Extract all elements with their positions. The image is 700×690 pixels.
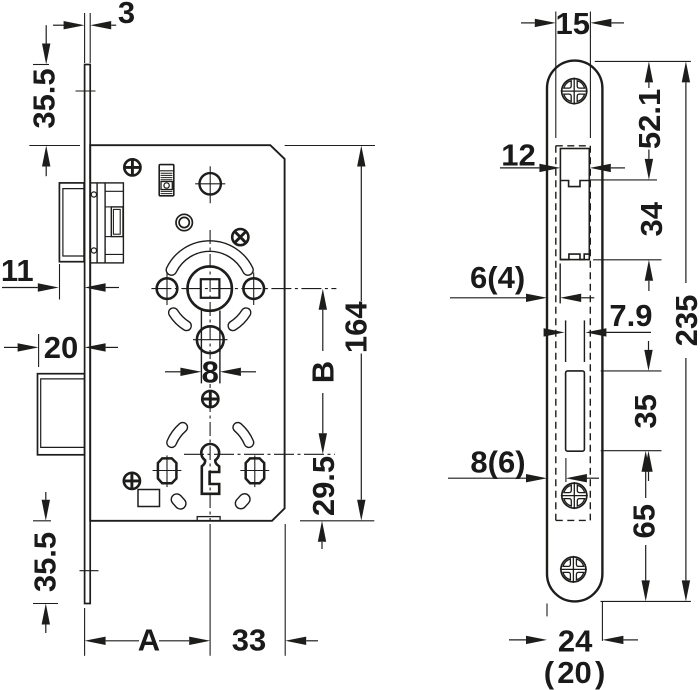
screw hole bottom (right view)	[560, 556, 587, 583]
deadbolt opening	[566, 371, 585, 451]
svg-text:33: 33	[232, 623, 266, 658]
inner vertical edge lines	[555, 12, 557, 139]
svg-text:235: 235	[669, 295, 700, 347]
dimension 7.9	[544, 298, 653, 337]
dimension 8(6)	[448, 445, 599, 483]
keyhole cluster : kidney top-left	[172, 427, 183, 442]
dimension 35	[601, 341, 663, 481]
svg-text:35: 35	[628, 394, 663, 428]
dimension 6(4)	[450, 260, 594, 302]
svg-text:34: 34	[634, 201, 669, 236]
svg-text:6(4): 6(4)	[470, 260, 525, 295]
dimension 3 (top)	[53, 0, 135, 63]
main follower hub	[188, 266, 232, 310]
screw hole middle (right view)	[561, 482, 588, 509]
spindle channel stubs inside lower hub	[201, 328, 220, 352]
keyhole cluster : kidney top-right	[238, 427, 249, 442]
svg-text:20: 20	[44, 330, 78, 365]
hub kidney slot lower-left	[173, 313, 186, 326]
svg-text:11: 11	[1, 253, 34, 288]
svg-text:65: 65	[626, 504, 661, 538]
svg-text:24: 24	[558, 624, 593, 659]
svg-text:29.5: 29.5	[306, 456, 341, 516]
right side hole	[243, 273, 264, 306]
screw S1 top-left	[124, 159, 141, 176]
svg-text:35.5: 35.5	[27, 68, 62, 128]
keyhole	[201, 444, 219, 494]
dimension 52.1	[589, 61, 691, 179]
dimension 35.5 (bottom)	[28, 492, 63, 633]
svg-text:15: 15	[556, 6, 590, 41]
faceplate (left view)	[85, 65, 91, 604]
svg-text:35.5: 35.5	[28, 532, 63, 592]
svg-text:164: 164	[339, 301, 374, 353]
dimension 15	[521, 6, 624, 41]
svg-text:7.9: 7.9	[609, 298, 652, 333]
upper hub hole	[195, 166, 225, 203]
dimension B	[305, 289, 340, 455]
hub horizontal centerline	[151, 288, 336, 290]
keyhole cluster : kidney bottom-right	[233, 491, 252, 511]
bolt channel lines	[565, 320, 567, 362]
crescent slot above hub	[171, 246, 247, 270]
dashed lock case behind plate	[556, 146, 591, 521]
keyhole cluster : kidney bottom-left	[169, 492, 188, 512]
dimension 65	[626, 451, 661, 602]
dimension 34	[593, 201, 669, 291]
latch bolt head	[59, 183, 84, 262]
svg-text:A: A	[138, 623, 160, 658]
lock body outline	[90, 145, 284, 521]
hub kidney slot lower-right	[233, 313, 246, 326]
hex fixing hole right	[240, 455, 269, 487]
dimension 164	[29, 146, 375, 521]
dimension 11	[1, 253, 119, 300]
ring hole	[176, 214, 192, 230]
deadbolt	[38, 374, 85, 455]
latch opening	[560, 149, 589, 260]
main vertical centerline	[209, 230, 211, 521]
svg-text:52.1: 52.1	[632, 89, 667, 149]
bottom tick line (65 / 235)	[601, 600, 691, 602]
dimension 20	[4, 330, 118, 367]
svg-text:B: B	[305, 361, 340, 383]
adjustable slider element	[159, 165, 174, 196]
svg-text:8(6): 8(6)	[470, 445, 525, 480]
hex fixing hole left	[153, 455, 182, 487]
dimension 235	[669, 61, 700, 601]
dimension 29.5	[306, 456, 341, 549]
svg-text:12: 12	[501, 138, 535, 173]
faceplate stadium outline	[547, 61, 602, 602]
dimension A and 33	[85, 524, 318, 658]
lower hub hole	[193, 326, 228, 353]
screw S3 (above keyhole)	[202, 390, 219, 407]
screw S4 (bottom-left)	[123, 472, 140, 489]
case edge line below opening	[559, 264, 561, 304]
faceplate break tick upper	[76, 90, 96, 92]
faceplate break tick lower	[80, 570, 99, 572]
screw S2	[228, 225, 252, 249]
svg-text:8: 8	[202, 355, 219, 390]
dimension 24 and (20)	[509, 602, 638, 690]
spindle channel	[201, 311, 220, 384]
svg-text:3: 3	[118, 0, 135, 30]
dimension 35.5 (top)	[27, 25, 62, 176]
left side hole	[157, 273, 178, 306]
keyhole horizontal centerline	[184, 453, 335, 455]
screw hole top (right view)	[561, 78, 588, 105]
dimension 12	[500, 138, 625, 173]
dimension 8	[165, 355, 256, 390]
latch bolt body (behind plate)	[90, 183, 123, 263]
bottom tab	[197, 517, 220, 521]
square hole bottom-left	[138, 490, 160, 507]
svg-text:(20): (20)	[544, 655, 606, 690]
